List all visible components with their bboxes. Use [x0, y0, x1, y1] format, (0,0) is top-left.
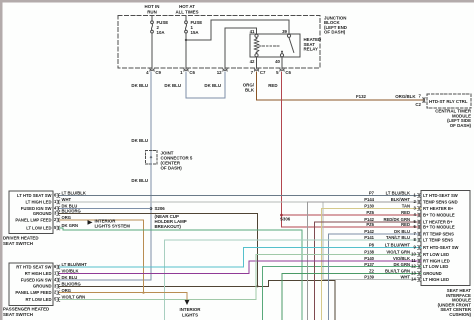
- connector drv pin 1: [57, 200, 60, 204]
- screenshot border band: [0, 0, 474, 3]
- svg-text:C2: C2: [415, 102, 421, 107]
- svg-text:F132: F132: [356, 94, 367, 99]
- svg-text:10: 10: [411, 252, 416, 257]
- wire LT BLU/BLK driver 6 to module 1: [60, 195, 422, 197]
- svg-text:TEMP SENS GND: TEMP SENS GND: [423, 199, 458, 204]
- svg-text:DK GRN: DK GRN: [62, 223, 79, 228]
- svg-text:Z2: Z2: [369, 269, 375, 274]
- connector 1 C6: [184, 68, 188, 71]
- wire fuse 2 to pin 4 C9: [151, 33, 153, 68]
- wire relay 42 to pin 7 C7: [256, 57, 258, 68]
- svg-text:LT BLU/BLK: LT BLU/BLK: [386, 191, 410, 196]
- svg-text:LIGHTS: LIGHTS: [182, 313, 198, 318]
- svg-text:DK BLU: DK BLU: [131, 83, 148, 88]
- seat heat interface module box: [421, 191, 470, 286]
- svg-text:CUSHION): CUSHION): [449, 312, 471, 317]
- svg-text:RED: RED: [401, 222, 410, 227]
- svg-text:OF DASH): OF DASH): [324, 30, 346, 35]
- connector 7 C7: [254, 68, 258, 71]
- wire BLK/LT GRN module 13 ground: [282, 274, 421, 320]
- fuse 2 10A: [151, 21, 154, 24]
- node splice S306: [280, 214, 283, 217]
- connector drv pin 3: [57, 212, 60, 216]
- wire DK BLU below joint connector to passenger pin 4: [60, 165, 152, 281]
- connector module pin 1: [418, 194, 421, 198]
- svg-text:39: 39: [282, 29, 287, 34]
- wire BLK/WHT module 2 down: [307, 202, 421, 320]
- svg-text:RED: RED: [401, 210, 410, 215]
- wire DK BLU driver 4 to splice S206: [60, 208, 152, 210]
- svg-text:RT HIGH LED: RT HIGH LED: [423, 258, 450, 263]
- svg-text:HOT IN: HOT IN: [145, 4, 160, 9]
- svg-text:FUSED IGN SW: FUSED IGN SW: [21, 277, 52, 282]
- svg-text:RT HEATER B+: RT HEATER B+: [423, 206, 454, 211]
- relay coil: [254, 37, 259, 53]
- svg-text:BLK/ORG: BLK/ORG: [62, 209, 81, 214]
- wire ORG driver panel lamp feed: [60, 220, 144, 293]
- svg-text:7: 7: [419, 94, 422, 99]
- connector module pin 6: [418, 225, 421, 229]
- svg-text:INTERIOR: INTERIOR: [180, 307, 202, 312]
- wire relay 40 to pin 5 C6: [281, 57, 283, 68]
- heated seat relay K1: [250, 34, 300, 57]
- svg-text:C7: C7: [260, 70, 266, 75]
- svg-text:DK BLU: DK BLU: [204, 83, 221, 88]
- connector module pin 9: [418, 246, 421, 250]
- svg-text:BLK/WHT: BLK/WHT: [391, 197, 411, 202]
- svg-text:P142: P142: [364, 229, 374, 234]
- wire DK GRN driver low led down: [60, 228, 303, 320]
- wire fuse 1 to pin 1 C6: [185, 33, 187, 68]
- connector drv pin 6: [57, 194, 60, 198]
- svg-text:VIO/BLK: VIO/BLK: [62, 269, 79, 274]
- wire VIO/LT GRN passenger 5 to module 10: [60, 255, 422, 300]
- svg-text:VIO/LT GRN: VIO/LT GRN: [386, 250, 410, 255]
- svg-text:S206: S206: [155, 206, 166, 211]
- svg-text:PANEL LMP FEED: PANEL LMP FEED: [15, 217, 51, 222]
- svg-text:12: 12: [217, 70, 222, 75]
- svg-text:P138: P138: [364, 250, 374, 255]
- central timer module dashed box: [427, 94, 471, 108]
- svg-text:LT BLU/WHT: LT BLU/WHT: [62, 262, 88, 267]
- svg-text:HTD-ST RLY CTRL: HTD-ST RLY CTRL: [429, 99, 468, 104]
- svg-text:P7: P7: [369, 191, 375, 196]
- wire ORG passenger panel lamp feed: [60, 293, 188, 300]
- svg-text:PANEL LMP FEED: PANEL LMP FEED: [15, 290, 51, 295]
- connector pass pin 5: [57, 298, 60, 302]
- wire ORG/BLK relay control to central timer module: [257, 72, 425, 100]
- svg-text:ORG/BLK: ORG/BLK: [395, 94, 416, 99]
- svg-text:WHT: WHT: [62, 197, 72, 202]
- svg-text:LT HIGH LED: LT HIGH LED: [423, 277, 449, 282]
- connector module pin 3: [418, 207, 421, 211]
- svg-text:B+ TO MODULE: B+ TO MODULE: [423, 212, 455, 217]
- wire jb pin 12 to relay pin 41: [225, 28, 257, 68]
- connector module pin 4: [418, 213, 421, 217]
- svg-text:P137: P137: [364, 262, 374, 267]
- svg-text:LT HTD SEAT SW: LT HTD SEAT SW: [17, 193, 52, 198]
- svg-text:RT HTD-SEAT SW: RT HTD-SEAT SW: [423, 245, 459, 250]
- svg-text:P144: P144: [364, 197, 374, 202]
- svg-text:LIGHTS SYSTEM: LIGHTS SYSTEM: [95, 224, 131, 229]
- svg-text:C9: C9: [155, 70, 161, 75]
- svg-text:RT LOW LED: RT LOW LED: [423, 252, 449, 257]
- svg-text:40: 40: [275, 59, 280, 64]
- svg-text:LT TEMP SENS: LT TEMP SENS: [423, 237, 453, 242]
- svg-text:RELAY: RELAY: [304, 47, 319, 52]
- svg-text:OF DASH): OF DASH): [450, 123, 472, 128]
- svg-text:PZ6: PZ6: [366, 222, 374, 227]
- wire WHT driver 1 to module 14: [60, 202, 422, 280]
- svg-text:15A: 15A: [191, 30, 200, 35]
- connector drv pin 2: [57, 218, 60, 222]
- svg-text:P8: P8: [369, 243, 375, 248]
- relay pin 40: [280, 54, 283, 57]
- svg-text:42: 42: [250, 59, 255, 64]
- svg-text:SEAT SWITCH: SEAT SWITCH: [3, 312, 33, 317]
- svg-text:P141: P141: [364, 235, 374, 240]
- connector pass pin 1: [57, 272, 60, 276]
- svg-text:PASSENGER HEATED: PASSENGER HEATED: [3, 307, 49, 312]
- connector 5 C6: [280, 68, 284, 71]
- svg-text:ORG: ORG: [62, 215, 72, 220]
- wire BLK/ORG passenger ground: [60, 281, 336, 320]
- fuse 1 15A: [185, 21, 188, 24]
- svg-text:DK BLU: DK BLU: [62, 275, 78, 280]
- fuse 1 feed wire: [185, 16, 187, 22]
- svg-text:PZ6: PZ6: [366, 210, 374, 215]
- wire RED branch to module pin 4: [282, 214, 422, 216]
- svg-text:LT LOW LED: LT LOW LED: [423, 264, 448, 269]
- connector module pin 14: [418, 278, 421, 282]
- svg-text:12: 12: [411, 264, 416, 269]
- wire fuse 1 to relay pin 39: [186, 20, 289, 40]
- svg-text:C6: C6: [189, 70, 195, 75]
- svg-text:LT BLU/BLK: LT BLU/BLK: [62, 191, 86, 196]
- svg-text:GROUND: GROUND: [423, 271, 442, 276]
- svg-text:BLK/ORG: BLK/ORG: [62, 282, 81, 287]
- wire BLK/ORG driver ground: [60, 214, 258, 287]
- node fuse 1 branch: [185, 39, 187, 41]
- connector 4 C9: [150, 68, 154, 71]
- relay pin 39: [287, 34, 290, 37]
- wire DK BLU main vertical: [150, 72, 152, 151]
- node splice S206: [150, 207, 153, 210]
- wire DK GRN module 12 down: [263, 267, 422, 320]
- relay pin 42: [255, 54, 258, 57]
- wire DK BLU jumper C6 to 12: [186, 72, 225, 98]
- connector pass pin 6: [57, 265, 60, 269]
- svg-text:7: 7: [251, 70, 254, 75]
- connector drv pin 5: [57, 226, 60, 230]
- relay pin 41: [255, 34, 258, 37]
- connector module pin 7: [418, 232, 421, 236]
- svg-text:BLK: BLK: [245, 88, 255, 93]
- connector pass pin 3: [57, 284, 60, 288]
- svg-text:GROUND: GROUND: [33, 284, 52, 289]
- svg-text:C6: C6: [285, 70, 291, 75]
- connector module pin 10: [418, 253, 421, 257]
- svg-text:1: 1: [180, 70, 183, 75]
- arrow interior lights passenger: [185, 300, 190, 305]
- svg-text:LT LOW LED: LT LOW LED: [26, 225, 51, 230]
- connector pass pin 4: [57, 278, 60, 282]
- svg-text:P139: P139: [364, 275, 374, 280]
- svg-text:TAN: TAN: [402, 204, 410, 209]
- svg-text:B+ TO MODULE: B+ TO MODULE: [423, 224, 455, 229]
- connector module pin 13: [418, 272, 421, 276]
- svg-text:13: 13: [411, 271, 416, 276]
- svg-text:11: 11: [411, 258, 416, 263]
- svg-text:GROUND: GROUND: [33, 211, 52, 216]
- svg-text:BLK/LT GRN: BLK/LT GRN: [385, 269, 410, 274]
- svg-text:41: 41: [250, 29, 255, 34]
- svg-text:BREAKOUT): BREAKOUT): [155, 224, 182, 229]
- connector module pin 8: [418, 238, 421, 242]
- svg-text:VIO/LT GRN: VIO/LT GRN: [62, 295, 86, 300]
- connector 7 C2: [423, 98, 426, 102]
- relay switch blade: [289, 38, 294, 53]
- wire RED/DK GRN module 5 down: [314, 222, 421, 320]
- connector module pin 2: [418, 200, 421, 204]
- svg-text:LT HIGH LED: LT HIGH LED: [26, 199, 52, 204]
- junction block dashed box: [118, 16, 320, 69]
- svg-text:10A: 10A: [157, 30, 166, 35]
- svg-text:14: 14: [411, 277, 416, 282]
- svg-text:LT BLU/WHT: LT BLU/WHT: [385, 243, 411, 248]
- svg-text:RED: RED: [268, 83, 277, 88]
- svg-text:RT TEMP SENS: RT TEMP SENS: [423, 231, 454, 236]
- svg-text:4: 4: [146, 70, 149, 75]
- svg-text:P130: P130: [364, 204, 374, 209]
- svg-text:RT HTD SEAT SW: RT HTD SEAT SW: [16, 264, 51, 269]
- wire RED relay output to module pin 6: [282, 72, 422, 227]
- svg-text:ORG: ORG: [62, 288, 72, 293]
- svg-text:VIO/BLK: VIO/BLK: [393, 256, 410, 261]
- wire DK BLU module 7 down: [329, 234, 422, 320]
- wire TAN/LT BLU module 8 down: [165, 240, 422, 320]
- svg-text:RT LOW LED: RT LOW LED: [25, 297, 51, 302]
- wire LT BLU/WHT passenger 6 to module 9: [60, 248, 422, 268]
- fuse 2 feed wire: [151, 16, 153, 22]
- connector module pin 12: [418, 265, 421, 269]
- svg-text:DK BLU: DK BLU: [131, 138, 148, 143]
- svg-text:DK BLU: DK BLU: [394, 229, 410, 234]
- svg-text:ALL TIMES: ALL TIMES: [175, 10, 198, 15]
- relay internal dashed link: [259, 45, 280, 47]
- svg-text:RT HIGH LED: RT HIGH LED: [25, 271, 52, 276]
- svg-text:SEAT SWITCH: SEAT SWITCH: [3, 241, 33, 246]
- svg-text:LT HTD-SEAT SW: LT HTD-SEAT SW: [423, 193, 458, 198]
- driver heated seat switch box: [9, 191, 53, 234]
- svg-text:HOT AT: HOT AT: [179, 4, 195, 9]
- joint connector 5 (center of dash): [146, 151, 158, 165]
- svg-text:DK BLU: DK BLU: [164, 83, 181, 88]
- connector pass pin 2: [57, 291, 60, 295]
- connector module pin 5: [418, 220, 421, 224]
- svg-text:P140: P140: [364, 256, 374, 261]
- svg-text:WHT: WHT: [400, 275, 410, 280]
- svg-text:DK BLU: DK BLU: [131, 178, 148, 183]
- wire VIO/BLK passenger 1 to module 11: [60, 261, 422, 274]
- svg-text:TAN/LT BLU: TAN/LT BLU: [386, 235, 410, 240]
- svg-text:DRIVER HEATED: DRIVER HEATED: [3, 236, 39, 241]
- connector drv pin 4: [57, 207, 60, 211]
- arrow interior lights system driver: [88, 220, 93, 225]
- connector 12: [223, 68, 227, 71]
- svg-text:OF DASH): OF DASH): [161, 166, 183, 171]
- wire TAN module 3 down: [321, 209, 421, 320]
- connector module pin 11: [418, 259, 421, 263]
- svg-text:S306: S306: [280, 217, 291, 222]
- passenger heated seat switch box: [9, 263, 53, 306]
- svg-text:5: 5: [276, 70, 279, 75]
- svg-text:DK GRN: DK GRN: [393, 262, 410, 267]
- svg-text:RUN: RUN: [147, 10, 157, 15]
